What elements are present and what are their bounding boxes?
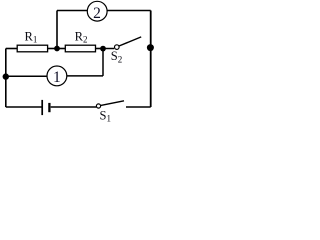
switch S2 pivot [115,45,120,50]
wire R2 to node B [96,48,104,50]
meter U2 circle [87,1,107,21]
node D junction dot [3,73,9,79]
wire riser corner to node B [102,51,104,76]
wire battery to switch S1 [51,106,97,108]
wire riser node A to meter 2 [56,11,58,49]
wire node B to switch S2 pivot [103,48,114,50]
svg-text:2: 2 [93,5,101,22]
switch S1 pivot [96,104,100,108]
node C junction dot [147,44,154,51]
node A junction dot [54,46,60,52]
wire top row left [6,48,17,50]
svg-text:1: 1 [53,69,61,86]
resistor R2 [65,45,95,52]
resistor R1 [17,45,47,52]
wire node D to meter 1 [6,75,47,77]
meter U1 circle [47,66,67,86]
wire meter 1 to corner [67,75,103,77]
wire node A to R2 [57,48,65,50]
battery short plate [48,103,50,112]
wire left vertical [5,49,7,108]
wire top horizontal right [107,10,151,12]
wire right vertical [150,11,152,108]
node B junction dot [100,46,106,52]
wire R1 to node A [48,48,57,50]
wire bottom left [6,106,42,108]
battery long plate [41,100,43,115]
wire bottom right stub [126,106,151,108]
wire top horizontal left [57,10,88,12]
switch S2 blade [119,37,141,46]
switch S1 blade [101,101,124,106]
